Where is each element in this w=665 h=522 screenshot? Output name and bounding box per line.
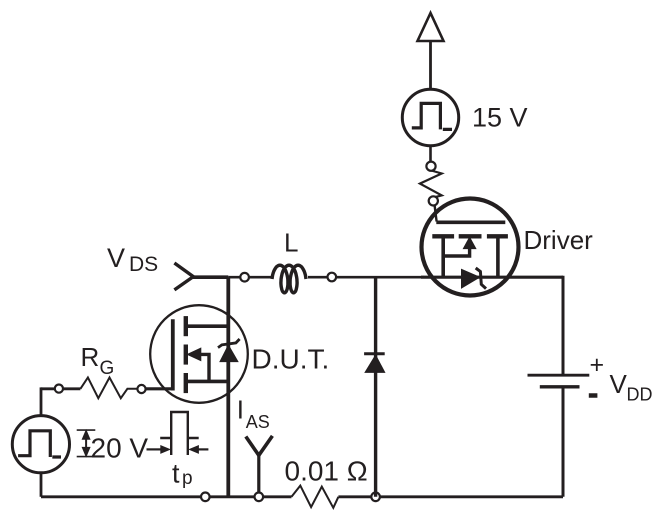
20V measure arrowhead down <box>82 447 90 456</box>
wire drain node to inductor <box>228 276 272 279</box>
driver drain stub <box>496 236 500 277</box>
DUT gate bar <box>171 319 175 390</box>
svg-text:AS: AS <box>246 412 270 432</box>
tp arrow left line <box>147 448 162 450</box>
resistor RG zigzag <box>80 378 137 399</box>
DUT circle <box>150 305 248 403</box>
freewheel diode branch wire <box>374 277 377 497</box>
driver source stub <box>441 236 445 277</box>
svg-text:L: L <box>284 228 298 258</box>
left wire down <box>40 387 43 414</box>
svg-text:I: I <box>237 395 244 425</box>
resistor driver-gate zigzag <box>420 171 442 198</box>
wire source to resistor <box>429 146 432 162</box>
pulse glyph 15V <box>412 103 452 129</box>
tp arrow left head <box>161 446 170 453</box>
svg-text:D.U.T.: D.U.T. <box>252 344 330 375</box>
driver MOSFET circle <box>422 199 519 296</box>
svg-text:15 V: 15 V <box>472 103 528 133</box>
svg-text:DS: DS <box>129 253 158 276</box>
pulse source 15V circle <box>402 89 458 145</box>
svg-text:+: + <box>590 351 605 379</box>
label battery minus <box>589 393 598 398</box>
terminal node <box>328 273 337 282</box>
bottom wire right <box>338 495 563 498</box>
svg-text:V: V <box>107 243 125 273</box>
pulse glyph 20V <box>18 431 61 457</box>
driver body diode cathode <box>476 268 486 289</box>
DUT body diode triangle <box>220 345 238 361</box>
IAS probe <box>246 436 273 455</box>
wire inductor to driver <box>308 276 424 279</box>
supply arrow terminal <box>418 13 444 41</box>
tp pulse glyph <box>160 412 199 455</box>
driver body diode triangle <box>462 269 480 288</box>
wire source to bottom <box>40 473 43 497</box>
resistor 0.01 zigzag <box>292 486 339 508</box>
DUT body diode cathode <box>218 339 240 348</box>
terminal node <box>55 385 63 393</box>
wire terminal to driver gate <box>435 205 437 221</box>
wire RG left <box>41 387 80 390</box>
driver channel dash middle <box>459 234 482 238</box>
svg-text:Driver: Driver <box>524 225 594 255</box>
tp arrow right head <box>189 446 198 453</box>
20V measure bar bottom <box>77 456 96 458</box>
DUT drain wire <box>226 277 230 497</box>
driver gate line <box>436 221 505 225</box>
inductor L coil <box>272 265 306 293</box>
driver channel dash left <box>432 234 454 238</box>
driver body arrow <box>463 237 475 248</box>
terminal node <box>426 162 435 171</box>
svg-text:p: p <box>182 468 193 489</box>
bottom wire left <box>41 495 292 498</box>
DUT body link <box>201 354 210 381</box>
svg-text:G: G <box>100 358 115 379</box>
battery VDD minus bar <box>540 385 580 388</box>
battery VDD bottom lead <box>562 387 565 497</box>
svg-text:DD: DD <box>627 385 653 405</box>
svg-text:0.01 Ω: 0.01 Ω <box>285 456 368 487</box>
svg-text:t: t <box>172 459 180 489</box>
DUT body arrow <box>187 348 201 360</box>
20V measure arrowhead up <box>82 430 90 439</box>
20V measure bar top <box>77 429 96 431</box>
driver body link <box>443 248 469 257</box>
wire arrow to 15V source <box>429 41 432 89</box>
terminal node <box>429 196 438 205</box>
freewheel diode triangle <box>365 355 385 372</box>
DUT channel dash top <box>184 316 188 336</box>
pulse source 20V circle <box>12 416 69 473</box>
terminal node <box>137 385 145 393</box>
DUT gate lead <box>146 387 173 390</box>
IAS probe stem <box>257 455 260 493</box>
terminal node <box>254 493 263 502</box>
wire through driver to corner <box>421 276 563 279</box>
svg-text:20 V: 20 V <box>91 433 149 464</box>
freewheel diode cathode bar <box>364 352 385 355</box>
VDS probe <box>174 263 193 290</box>
20V measure stem <box>85 432 87 456</box>
DUT channel dash bottom <box>184 373 188 393</box>
terminal node <box>371 493 380 502</box>
terminal node <box>201 493 210 502</box>
DUT channel dash middle <box>184 345 188 365</box>
driver channel dash right <box>487 234 508 238</box>
right wire down <box>562 276 565 376</box>
tp arrow right line <box>198 448 209 450</box>
wire probe to drain node <box>193 275 228 279</box>
svg-text:R: R <box>81 342 100 372</box>
battery VDD plus bar <box>528 374 590 377</box>
terminal node <box>240 273 249 282</box>
svg-text:V: V <box>610 369 628 399</box>
DUT source stub <box>186 380 229 384</box>
DUT drain stub <box>186 324 229 328</box>
